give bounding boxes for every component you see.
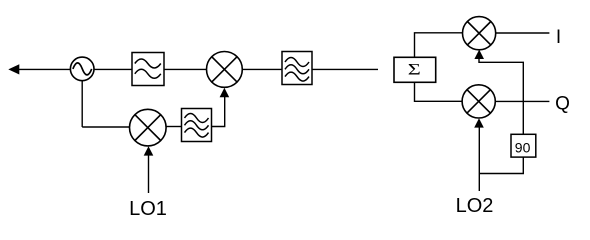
wire summer top to mixer M3 — [415, 33, 463, 58]
output arrow (left) — [8, 64, 19, 74]
phase shifter 90 box — [511, 134, 536, 157]
mixer M1 — [207, 52, 243, 88]
wire M3 to I — [496, 32, 550, 34]
summer box — [394, 57, 436, 82]
svg-text:LO2: LO2 — [456, 195, 494, 217]
wire arrow to oscillator — [18, 68, 71, 70]
svg-text:90: 90 — [515, 139, 531, 155]
mixer M2 — [130, 109, 167, 146]
wire oscillator to filter F1 — [94, 68, 132, 70]
wire M4 to Q — [495, 100, 549, 102]
wire M1 to filter F2 — [242, 68, 282, 70]
arrow into M3 bottom — [474, 50, 484, 59]
mixer M4 (Q) — [462, 85, 495, 118]
svg-text:LO1: LO1 — [129, 198, 167, 220]
wire from 90 box up to M3 — [479, 59, 523, 135]
svg-text:Q: Q — [555, 94, 570, 115]
filter F1 — [132, 53, 164, 86]
filter F3 — [182, 109, 212, 142]
mixer M3 (I) — [463, 17, 496, 50]
wire F2 output (open end) — [312, 68, 378, 70]
wire M2 to filter F3 — [166, 126, 181, 128]
wire oscillator down — [81, 81, 83, 127]
arrow into M4 bottom — [474, 118, 484, 127]
arrow into M1 bottom — [220, 88, 230, 97]
wire F1 to mixer M1 — [164, 68, 207, 70]
oscillator — [70, 57, 94, 81]
LO2 wire — [478, 127, 480, 191]
LO1 wire — [148, 154, 150, 193]
arrow into M2 bottom — [144, 146, 154, 155]
wire to mixer M2 — [82, 126, 129, 128]
wire 90 box bottom to LO2 line — [479, 157, 523, 173]
filter F2 — [282, 52, 312, 85]
wire F3 right then up to M1 — [212, 96, 225, 127]
svg-text:Σ: Σ — [408, 61, 421, 78]
wire summer bottom to mixer M4 — [415, 82, 463, 101]
svg-text:I: I — [556, 27, 561, 48]
